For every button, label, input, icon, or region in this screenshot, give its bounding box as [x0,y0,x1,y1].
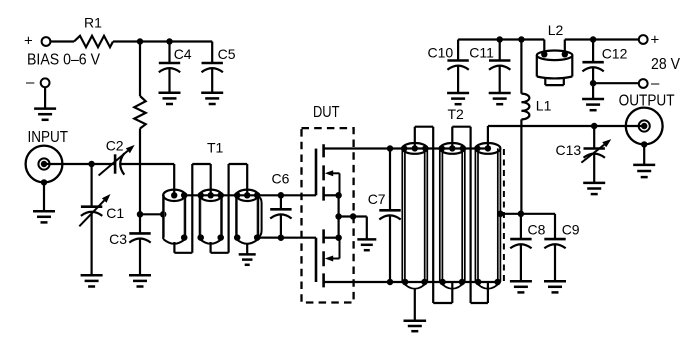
svg-text:C11: C11 [469,45,494,61]
svg-text:C2: C2 [106,137,124,153]
svg-text:C1: C1 [106,205,124,221]
svg-text:T1: T1 [207,140,224,156]
svg-text:C3: C3 [109,231,127,247]
svg-text:28 V: 28 V [651,56,680,73]
svg-text:C10: C10 [428,45,454,61]
svg-text:C9: C9 [562,222,580,238]
svg-text:L1: L1 [536,98,552,114]
svg-text:+: + [651,32,660,49]
svg-text:C8: C8 [528,222,546,238]
svg-text:–: – [651,75,660,92]
svg-text:–: – [26,74,35,91]
svg-text:C13: C13 [556,142,582,158]
svg-text:INPUT: INPUT [28,129,69,146]
svg-text:C4: C4 [174,46,192,62]
svg-text:OUTPUT: OUTPUT [619,93,675,110]
svg-text:BIAS 0–6 V: BIAS 0–6 V [27,52,100,69]
svg-text:C6: C6 [272,171,290,187]
svg-text:C12: C12 [602,46,628,62]
svg-text:L2: L2 [548,22,564,38]
svg-text:R1: R1 [84,14,102,30]
svg-text:T2: T2 [448,106,465,122]
svg-text:+: + [24,33,33,50]
svg-text:DUT: DUT [313,104,340,121]
svg-text:C7: C7 [368,191,386,207]
svg-text:C5: C5 [218,46,236,62]
